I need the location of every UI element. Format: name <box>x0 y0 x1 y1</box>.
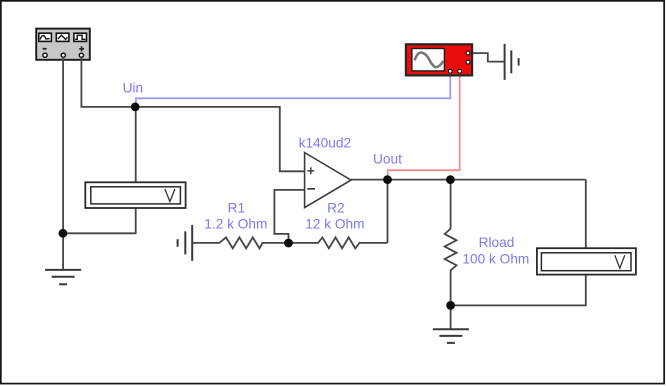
ground G3 (below Rload) <box>433 329 469 343</box>
oscilloscope terminal right 2 <box>466 60 470 64</box>
wire node Uin to op-amp noninverting input <box>135 107 304 171</box>
function generator terminal minus <box>43 53 47 57</box>
function generator square display <box>74 33 87 41</box>
wire node B down through Rload to node C <box>450 180 452 229</box>
wire node Uin down to voltmeter U1 top <box>135 107 137 182</box>
svg-text:R1: R1 <box>228 200 246 215</box>
oscilloscope terminal bottom B <box>458 69 462 73</box>
function generator terminal plus <box>79 53 83 57</box>
svg-text:Uout: Uout <box>373 151 402 166</box>
wire op-amp output to right branch <box>351 179 586 181</box>
function generator minus label <box>43 48 47 50</box>
wire node C to voltmeter U2 bottom <box>451 275 586 306</box>
oscilloscope terminal right 1 <box>466 51 470 55</box>
wire right branch down to voltmeter U2 top <box>585 180 587 249</box>
resistor R1 <box>192 237 288 248</box>
wire oscilloscope ground <box>472 53 503 62</box>
oscilloscope XSC1 <box>406 44 472 75</box>
wire R2 right leg up to node Uout <box>387 180 389 243</box>
ground G2 (left of R1) <box>178 225 193 261</box>
node B junction dot <box>446 175 455 184</box>
svg-text:100 k Ohm: 100 k Ohm <box>462 251 529 266</box>
wire voltmeter U1 bottom to ground node <box>63 208 136 233</box>
node ground-left junction dot <box>59 229 68 238</box>
wire Uin to oscilloscope channel A (lavender) <box>136 73 450 107</box>
oscilloscope terminal bottom A <box>448 69 452 73</box>
svg-text:k140ud2: k140ud2 <box>299 135 352 150</box>
wire op-amp inverting input to node R1R2 <box>274 190 304 243</box>
node Uin junction dot <box>131 103 140 112</box>
ground G4 (right of oscilloscope) <box>505 44 519 80</box>
wire Uout to oscilloscope channel B (red) <box>388 73 460 179</box>
node R1R2 junction dot <box>284 239 293 248</box>
node C junction dot <box>446 301 455 310</box>
op-amp U1 k140ud2 <box>305 153 351 208</box>
function generator terminal common <box>61 53 65 57</box>
function generator plus label <box>79 46 84 51</box>
node Uout junction dot <box>383 175 392 184</box>
svg-text:1.2 k Ohm: 1.2 k Ohm <box>204 216 267 231</box>
svg-text:Uin: Uin <box>123 81 144 96</box>
resistor Rload <box>445 229 457 306</box>
wire common terminal down to ground node <box>62 57 64 233</box>
ground G1 <box>45 270 81 284</box>
voltmeter U1 <box>85 182 185 208</box>
wire node C ground stem <box>450 305 452 329</box>
wire ground node stem <box>62 233 64 269</box>
function generator sine display <box>39 33 52 41</box>
svg-text:12 k Ohm: 12 k Ohm <box>305 216 364 231</box>
function generator XFG1 body <box>36 29 90 60</box>
wire plus terminal to node Uin <box>81 57 135 107</box>
voltmeter U2 <box>537 248 636 274</box>
resistor R2 <box>289 237 388 248</box>
svg-text:R2: R2 <box>327 200 345 215</box>
svg-text:Rload: Rload <box>479 235 515 250</box>
function generator triangle display <box>56 33 69 41</box>
